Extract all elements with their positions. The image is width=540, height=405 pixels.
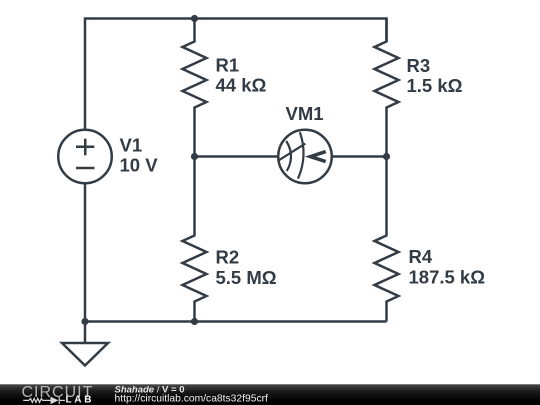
footer bar xyxy=(0,384,540,405)
svg-text:R2: R2 xyxy=(216,247,240,268)
voltage source V1 xyxy=(58,130,112,184)
svg-text:44 kΩ: 44 kΩ xyxy=(216,75,267,96)
svg-text:187.5 kΩ: 187.5 kΩ xyxy=(409,267,486,288)
resistor R3 xyxy=(375,19,399,157)
ground xyxy=(84,322,87,344)
svg-text:R1: R1 xyxy=(216,55,240,76)
wire voltmeter to node C xyxy=(332,155,387,158)
resistor R1 xyxy=(183,19,207,157)
svg-text:V1: V1 xyxy=(120,135,143,156)
node C junction dot (mid-right) xyxy=(383,153,390,160)
node E junction dot (R2 bottom) xyxy=(191,318,198,325)
voltmeter VM1 xyxy=(278,130,332,184)
svg-text:R4: R4 xyxy=(409,246,433,267)
svg-text:R3: R3 xyxy=(407,55,431,76)
wire bottom: ground node to R2 bottom and R4 bottom xyxy=(85,320,387,323)
svg-text:1.5 kΩ: 1.5 kΩ xyxy=(407,75,463,96)
CircuitLab logo diode arrow xyxy=(51,397,59,405)
resistor R2 xyxy=(183,157,207,322)
node D junction dot (ground tee) xyxy=(81,318,88,325)
wire top-right: node A to R3 top xyxy=(195,19,387,43)
svg-text:LAB: LAB xyxy=(66,395,95,405)
wire node B to voltmeter xyxy=(195,155,279,158)
node A junction dot xyxy=(191,15,198,22)
svg-text:10 V: 10 V xyxy=(120,155,159,176)
wire V1 bottom to ground node xyxy=(84,183,87,321)
svg-text:http://circuitlab.com/ca8ts32f: http://circuitlab.com/ca8ts32f95crf xyxy=(115,394,269,405)
svg-text:VM1: VM1 xyxy=(286,103,324,124)
wire top-left: V1 top to node A xyxy=(85,19,195,129)
svg-text:5.5 MΩ: 5.5 MΩ xyxy=(216,267,277,288)
CircuitLab logo schematic line (resistor + diode) xyxy=(23,397,65,404)
resistor R4 xyxy=(375,157,399,322)
node B junction dot (mid-left) xyxy=(191,153,198,160)
